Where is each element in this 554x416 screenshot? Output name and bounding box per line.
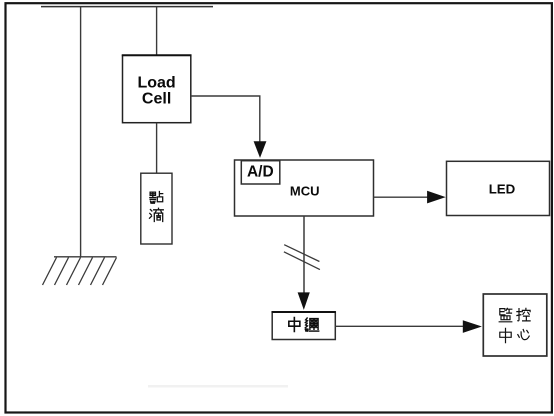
svg-text:MCU: MCU: [290, 184, 320, 199]
wire: hanger to Load Cell: [156, 7, 158, 56]
box: LED: [447, 161, 550, 215]
wire: Load Cell to drip bag: [156, 123, 158, 174]
wire: MCU down to relay: [303, 216, 305, 293]
ground hatch stroke 5: [91, 258, 105, 286]
svg-text:LED: LED: [489, 181, 516, 196]
ground hatch stroke 4: [79, 258, 93, 286]
arrowhead into LED: [427, 191, 446, 204]
ground hatch stroke 1: [43, 258, 57, 286]
box: drip bag (點滴): [141, 173, 172, 244]
wire: relay to monitor center: [335, 325, 463, 327]
glyph 繼: [305, 318, 318, 331]
glyph 控: [517, 308, 530, 321]
svg-text:A/D: A/D: [247, 164, 274, 181]
glyph 滴: [150, 208, 164, 221]
wire: left hanger rod: [80, 7, 82, 257]
box: relay (中繼): [272, 312, 335, 340]
ground hatch stroke 6: [103, 258, 117, 286]
wire: MCU to LED: [374, 196, 429, 198]
break slash 1: [284, 245, 319, 262]
arrowhead into relay: [298, 292, 310, 310]
ground hatch stroke 2: [55, 258, 69, 286]
box: Load Cell: [123, 55, 191, 122]
box: A/D: [241, 161, 279, 184]
glyph 點: [150, 192, 163, 204]
break slash 2: [284, 252, 320, 270]
svg-text:Cell: Cell: [142, 91, 171, 108]
arrowhead into monitor center: [463, 320, 482, 333]
arrowhead into A/D: [254, 141, 267, 158]
glyph 心: [518, 330, 529, 340]
ground hatch stroke 3: [67, 258, 81, 286]
svg-text:Load: Load: [137, 74, 175, 91]
box: monitor center (監控中心): [483, 294, 547, 356]
glyph 監: [499, 308, 512, 322]
glyph 中 (monitor): [500, 328, 511, 342]
box: MCU: [235, 160, 374, 216]
faint watermark remnant: [148, 385, 288, 388]
ceiling support line: [41, 6, 213, 8]
ground hatch horizontal bar: [54, 256, 117, 258]
wire: Load Cell right to A/D (elbow): [191, 96, 260, 143]
glyph 中 (relay): [289, 317, 300, 331]
